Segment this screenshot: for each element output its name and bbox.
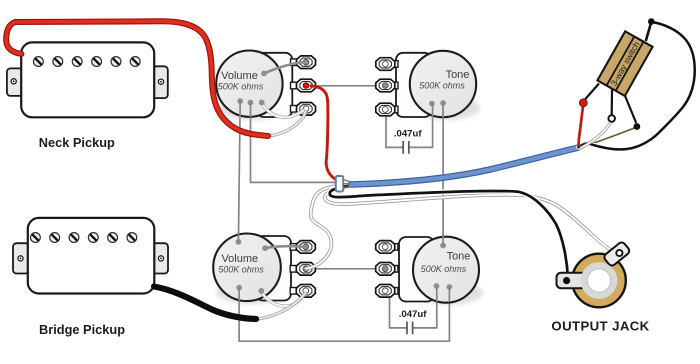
svg-text:OUTPUT JACK: OUTPUT JACK [551, 319, 649, 334]
POTS [213, 50, 483, 306]
bridge mounting ear right [153, 243, 169, 273]
node VOL1 dot b [248, 100, 254, 106]
potentiometer TONE2 (bridge tone) [376, 237, 483, 305]
node VOL2 dot top-left [236, 239, 242, 245]
pot body VOL2 [213, 233, 281, 301]
svg-text:500K ohms: 500K ohms [421, 264, 467, 274]
switch lever [646, 24, 651, 42]
wire volume2-lug2 to tone2-lug2 [306, 268, 385, 270]
bridge pickup body [28, 218, 155, 294]
lug TONE2-1 [376, 241, 395, 254]
strand olive blue-tip to switch right lug [579, 128, 636, 149]
bridge pole screws [31, 233, 137, 243]
node TONE1 dot b [440, 100, 446, 106]
node VOL2 dot bottom-left [236, 285, 242, 291]
lug VOL1-3 [297, 103, 316, 116]
wire blue to switch [351, 148, 578, 185]
lug VOL1-2 [297, 79, 316, 92]
output jack hole [587, 269, 610, 292]
node TONE1 dot a [429, 101, 435, 107]
wire volume2 dot down right up to tone2 dot [239, 287, 449, 341]
potentiometer VOL2 (bridge volume) [213, 233, 315, 306]
capacitor C2 plates [407, 322, 413, 335]
switch lug stub right [625, 95, 637, 124]
neck mounting ear right [153, 66, 168, 98]
wire VOL1 white to lug3 [262, 103, 306, 118]
capacitor C2 leads [390, 286, 437, 328]
connector sleeve [336, 176, 343, 192]
switch body SW1 [597, 31, 652, 96]
pot body TONE2 [413, 237, 479, 303]
pot body VOL1 [216, 50, 282, 116]
lug VOL1-1 [297, 56, 316, 69]
PICKUPS [7, 42, 168, 293]
switch lug ball red [579, 99, 587, 107]
neck pickup body [21, 42, 154, 117]
output jack tab right (tip) [603, 241, 631, 267]
output jack washer [581, 262, 618, 299]
lug TONE1-1 [376, 58, 395, 71]
svg-text:Volume: Volume [221, 253, 258, 265]
svg-text:Volume: Volume [221, 70, 258, 82]
pot body TONE1 [410, 51, 476, 117]
bridge mounting ear left [13, 243, 29, 273]
svg-text:500K ohms: 500K ohms [419, 81, 465, 91]
svg-text:Bridge Pickup: Bridge Pickup [39, 322, 125, 337]
svg-text:Neck Pickup: Neck Pickup [39, 135, 115, 150]
lug TONE2-3 [376, 285, 395, 298]
neck pole screws [34, 57, 141, 67]
lug VOL2-3 [296, 285, 315, 298]
wire VOL2 wiper to lug1 [265, 246, 304, 248]
svg-text:.047uf: .047uf [394, 129, 423, 140]
node VOL2 dot bottom-right [258, 288, 264, 294]
jack tip ring terminal [616, 250, 622, 256]
capacitor C1 leads [386, 104, 433, 147]
humbucker BRIDGE pickup [13, 218, 168, 294]
svg-text:500K ohms: 500K ohms [218, 82, 264, 92]
switch lug stub middle [611, 90, 613, 115]
wire red neck pickup hot [6, 21, 268, 136]
wire white switch middle lug to blue tip [581, 121, 612, 148]
SWITCH [578, 18, 694, 149]
wire into VOL2 dot bottom-left [238, 288, 240, 301]
node VOL1 wiper dot [261, 71, 267, 77]
wire black end at jack [563, 277, 570, 284]
wire into TONE1 dot a from C1 [432, 104, 434, 118]
wire black switch loop to jack area [579, 22, 695, 149]
lug VOL2-2 [296, 263, 315, 276]
node TONE2 dot bottom-right [447, 284, 453, 290]
wire into TONE2 dot bottom-right [448, 287, 450, 302]
node TONE2 dot bottom-left [434, 283, 440, 289]
switch lug ring middle [608, 115, 615, 122]
humbucker NECK pickup [7, 42, 168, 117]
switch lug ball right [634, 123, 641, 130]
wire VOL1 wiper to lug1 [264, 62, 304, 73]
potentiometer TONE1 (neck tone) [376, 51, 480, 120]
node VOL1 dot c [259, 100, 265, 106]
THIN-WIRES [238, 86, 449, 341]
svg-text:500K ohms: 500K ohms [218, 265, 264, 275]
wire white VOL2 lug2 S-curve to bundle loop to jack tip [306, 186, 617, 269]
svg-text:.047uf: .047uf [399, 309, 428, 320]
svg-text:Tone: Tone [446, 69, 470, 81]
wire braid from neck red end to VOL1 lug3 [268, 112, 306, 137]
node TONE2 dot top [440, 243, 446, 249]
wire red switch left lug down to blue tip [578, 106, 583, 147]
wire into TONE1 dot b / TONE2 dot top [442, 103, 444, 246]
lug TONE1-3 [376, 103, 395, 116]
wire black bundle to jack ground [330, 186, 568, 277]
wire into VOL1 dot a [239, 101, 241, 117]
switch lug stub left [585, 84, 600, 101]
neck mounting ear left [7, 68, 23, 96]
node VOL2 wiper dot [262, 245, 268, 251]
wire into VOL1 dot b [250, 103, 252, 118]
wire black bridge pickup hot [154, 287, 256, 320]
wire tone1 dot to tone2 dot vertical [442, 103, 444, 246]
wire volume1-lug2 to tone1-lug2 [306, 85, 385, 87]
svg-text:Tone: Tone [447, 251, 471, 263]
wire into TONE2 dot bottom-left from C2 [436, 286, 438, 302]
output jack tab left (sleeve) [557, 273, 587, 288]
connector strands [344, 180, 354, 188]
capacitor C1 plates [403, 141, 409, 154]
wire red VOL1 lug2 to connector [311, 86, 337, 180]
lug VOL2-1 [296, 241, 315, 254]
wire volume1 center dot down then right to connector [251, 103, 337, 183]
BIGWIRES [6, 21, 635, 319]
wire into VOL2 dot top-left [237, 231, 239, 242]
wire VOL2 white to lug3 [261, 291, 305, 306]
node VOL1 dot a [237, 98, 243, 104]
JACK [557, 241, 631, 307]
wire volume1 dot to volume2 dot vertical [238, 101, 240, 242]
potentiometer VOL1 (neck volume) [216, 50, 315, 120]
lug TONE1-2 [376, 79, 395, 92]
wire overlay segments inside pot bodies [238, 101, 449, 302]
wire braid from bridge black end to VOL2 lug3 [256, 294, 305, 320]
lug TONE2-2 [376, 263, 395, 276]
output jack ring [572, 254, 626, 308]
